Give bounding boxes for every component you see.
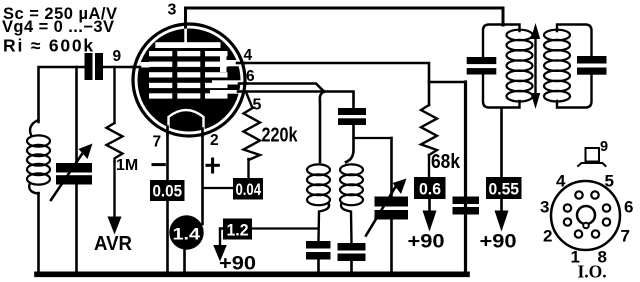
- wire T1 primary bottom to 0.55: [500, 108, 503, 177]
- wire decoupling vertical: [464, 82, 467, 274]
- resistor R2 220k: [244, 92, 261, 178]
- resistor R3 68k: [421, 105, 437, 177]
- svg-text:0.05: 0.05: [153, 182, 183, 201]
- wire branch to padder: [354, 137, 392, 139]
- capacitor box 0.55: [486, 177, 522, 199]
- plus sign: [207, 159, 218, 172]
- capacitor box 0.6: [414, 177, 446, 199]
- svg-text:1.4: 1.4: [173, 226, 201, 244]
- minus sign: [153, 163, 164, 166]
- arrow +90 screen: [423, 211, 437, 232]
- capacitor C5 bottom right: [338, 243, 366, 261]
- wire pin2 to 0.04: [204, 187, 233, 189]
- socket pin holes: [564, 191, 610, 237]
- svg-text:6: 6: [246, 68, 255, 85]
- socket outline: [551, 181, 620, 250]
- capacitor C9 secondary tuning: [577, 56, 607, 75]
- svg-text:3: 3: [168, 2, 177, 19]
- current circle 1.4: [169, 215, 203, 249]
- tube internals: [137, 26, 241, 131]
- ground bus: [37, 271, 467, 277]
- wire pin 5: [243, 90, 324, 93]
- svg-text:2: 2: [210, 132, 219, 149]
- wire coupling cap to tube pin 9: [103, 66, 135, 69]
- socket center hole: [577, 206, 595, 224]
- svg-text:0.6: 0.6: [419, 180, 441, 199]
- capacitor C3 oscillator top: [338, 108, 366, 125]
- tube V1 envelope: [133, 24, 245, 136]
- svg-text:3: 3: [540, 198, 549, 217]
- svg-text:Ri ≈ 600k: Ri ≈ 600k: [3, 36, 95, 56]
- IF transformer T1 primary outline: [483, 25, 520, 108]
- svg-text:4: 4: [556, 172, 566, 191]
- svg-text:0.04: 0.04: [236, 180, 262, 199]
- tube V1 electrode disc: [138, 29, 241, 132]
- wire cathode circle to bus: [183, 250, 186, 275]
- svg-text:9: 9: [600, 139, 608, 155]
- arrow +90 feed: [213, 245, 227, 262]
- wire pin 3 anode to IF transformer: [186, 8, 504, 25]
- coil T1 primary: [507, 30, 533, 102]
- svg-text:220k: 220k: [262, 125, 299, 147]
- wire 0.55 to arrow: [500, 199, 503, 211]
- wire 0.6 to arrow: [428, 199, 431, 211]
- capacitor C2 coupling: [85, 53, 104, 80]
- svg-text:7: 7: [153, 134, 162, 151]
- wire pin stubs across envelope gap: [132, 21, 246, 136]
- svg-text:2: 2: [543, 227, 552, 246]
- socket key notch: [583, 223, 589, 229]
- svg-text:0.55: 0.55: [489, 180, 520, 199]
- capacitor box 0.05: [150, 180, 185, 201]
- svg-text:AVR: AVR: [94, 233, 133, 255]
- coil T1 secondary: [544, 30, 570, 102]
- svg-text:6: 6: [624, 198, 633, 217]
- svg-text:7: 7: [621, 227, 630, 246]
- capacitor box 1.2: [223, 219, 252, 240]
- coil L3 oscillator right: [340, 164, 363, 205]
- top cap symbol: [578, 148, 606, 166]
- svg-text:Vg4 = 0 ...−3V: Vg4 = 0 ...−3V: [2, 18, 114, 36]
- svg-text:1M: 1M: [116, 157, 138, 174]
- cathode dome: [169, 110, 204, 131]
- resistor R1 1M: [107, 67, 123, 216]
- wire osc coil left bottom: [319, 203, 330, 241]
- arrow to AVR: [108, 217, 122, 235]
- arrow +90 anode: [495, 211, 509, 232]
- capacitor C4 bottom left: [306, 241, 331, 260]
- capacitor C8 primary tuning: [467, 57, 497, 75]
- wire pin 6: [243, 84, 324, 92]
- wire pin 7: [166, 131, 169, 180]
- svg-text:I.O.: I.O.: [578, 262, 607, 282]
- coil L2 oscillator left: [307, 164, 330, 205]
- wire C5 to bus: [350, 261, 353, 274]
- capacitor box 0.04: [233, 178, 263, 200]
- wire branch to decoupling cap: [429, 81, 466, 84]
- variable capacitor C1 tuning: [51, 67, 93, 274]
- capacitor C7 decoupling: [453, 197, 480, 215]
- wire pin 2: [201, 133, 204, 224]
- wire osc cap to coil: [346, 125, 354, 162]
- svg-text:9: 9: [113, 48, 122, 65]
- svg-text:1.2: 1.2: [227, 221, 249, 240]
- wire osc coil right bottom: [341, 203, 352, 243]
- svg-text:5: 5: [253, 97, 262, 114]
- wire antenna coil bottom to bus: [37, 193, 40, 274]
- wire pin 4 to screen resistor: [240, 63, 429, 105]
- wire junction to oscillator cap: [324, 92, 354, 109]
- svg-text:68k: 68k: [431, 151, 461, 173]
- svg-text:5: 5: [605, 172, 614, 191]
- svg-text:4: 4: [244, 47, 253, 64]
- wire junction down to oscillator coil: [320, 92, 324, 163]
- IF transformer T1 secondary outline: [557, 25, 592, 108]
- wire 1.2 to oscillator coil foot: [252, 227, 319, 229]
- wire pin 7 below 0.05 to bus: [166, 201, 169, 274]
- coupling arrow: [531, 23, 540, 109]
- svg-text:+90: +90: [480, 231, 517, 253]
- wire 1.2 left to +90 arrow: [220, 229, 223, 247]
- svg-text:+90: +90: [219, 253, 256, 275]
- variable capacitor C6 padder: [366, 138, 408, 274]
- svg-text:+90: +90: [408, 231, 445, 253]
- wire C4 to bus: [317, 260, 320, 275]
- coil L1 antenna: [27, 120, 50, 194]
- wire antenna top horizontal to coupling cap: [39, 67, 85, 122]
